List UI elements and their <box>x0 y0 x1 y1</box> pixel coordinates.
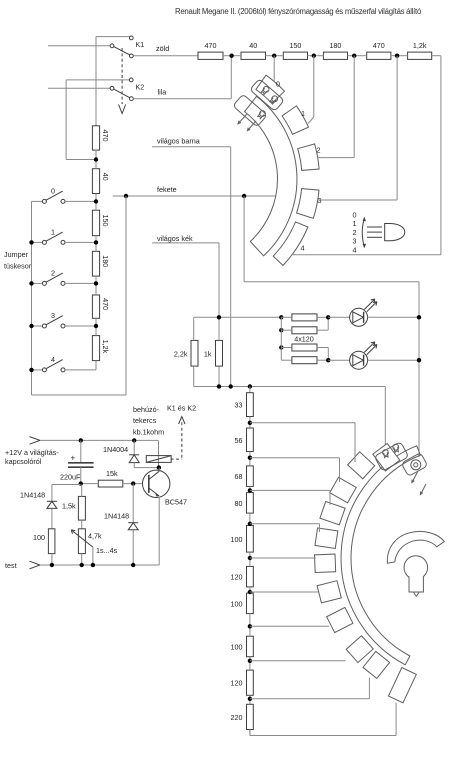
headlight symbol range arrow <box>362 218 364 248</box>
svg-text:Renault Megane II. (2006tól) f: Renault Megane II. (2006tól) fényszóróma… <box>175 7 422 16</box>
upper rotary segment 4 <box>273 222 308 266</box>
relay contact K2 <box>129 78 133 82</box>
svg-text:120: 120 <box>231 573 243 582</box>
wire K1 top terminal <box>96 36 129 38</box>
svg-text:470: 470 <box>101 129 110 141</box>
lower rotary switch ring track <box>341 446 420 665</box>
lower rotary segment 7 <box>327 607 353 632</box>
node LED2 cathode to common <box>417 358 421 362</box>
upper rotary switch ring track <box>245 96 297 256</box>
resistor 120 d <box>292 357 317 364</box>
wire fekete <box>113 195 276 197</box>
lower rotary segment 3 <box>320 501 345 524</box>
wire upper segment 2 <box>353 56 355 158</box>
svg-text:40: 40 <box>249 41 257 50</box>
wire to LED1 <box>328 316 349 318</box>
wire 1k branch <box>218 317 220 340</box>
svg-text:2,2k: 2,2k <box>174 350 188 359</box>
resistor 100 position ladder 5 <box>247 525 254 552</box>
wire collector <box>158 468 160 471</box>
lower rotary wiper pad A <box>374 442 408 471</box>
jumper switch 1 <box>32 241 43 243</box>
resistor 100 position ladder 8 <box>247 636 254 657</box>
wire vilagos kek <box>152 242 219 244</box>
wire 2.2k branch <box>193 317 195 340</box>
svg-text:120: 120 <box>231 679 243 688</box>
node barna join <box>229 384 233 388</box>
resistor 120 a <box>292 314 317 321</box>
svg-text:180: 180 <box>329 41 341 50</box>
svg-text:1: 1 <box>51 227 55 236</box>
wire ladder tap9 to segment <box>250 698 370 700</box>
resistor 470 top ladder <box>367 52 391 59</box>
node base-diode junction <box>131 481 135 485</box>
svg-text:1N4148: 1N4148 <box>104 512 129 521</box>
LED LED1 <box>350 308 368 326</box>
lower wiper keyholes <box>383 450 389 456</box>
lower rotary segment 8 <box>346 636 373 663</box>
svg-text:100: 100 <box>33 533 45 542</box>
node 1k bottom <box>217 384 221 388</box>
svg-text:+: + <box>71 454 76 463</box>
wire vilagos barna <box>152 146 231 148</box>
svg-text:1N4004: 1N4004 <box>103 445 128 454</box>
relay contact K1 <box>129 36 133 40</box>
wire 15k left <box>81 483 99 485</box>
svg-text:kb.1kohm: kb.1kohm <box>133 427 164 436</box>
relay coil K1K2 behuzo-tekercs <box>158 440 160 467</box>
lower wiper circle contact <box>411 460 421 470</box>
connector +12V input <box>30 437 41 445</box>
upper rotary wiper pad B <box>233 94 267 127</box>
wire +12V rail <box>40 439 158 441</box>
svg-text:4,7k: 4,7k <box>88 532 102 541</box>
svg-text:4x120: 4x120 <box>294 335 314 344</box>
wire to LED2 <box>328 359 349 361</box>
lower rotary segment 4 <box>315 528 338 548</box>
svg-text:3: 3 <box>51 311 55 320</box>
svg-text:150: 150 <box>289 41 301 50</box>
upper rotary segment 1 <box>282 106 308 134</box>
node junction 470/1.2k <box>395 54 399 58</box>
lower rotary segment 1 <box>348 452 375 479</box>
svg-text:K1 és K2: K1 és K2 <box>167 404 196 413</box>
resistor 220 position ladder 10 <box>247 704 254 729</box>
svg-text:fekete: fekete <box>157 185 177 194</box>
node 15k cap branch <box>79 481 83 485</box>
wire LED2 cathode <box>368 359 419 361</box>
transistor Q1 BC547 <box>143 470 170 497</box>
upper rotary wiper pad A <box>250 79 284 112</box>
wire fekete to jumper rail <box>125 196 127 395</box>
wire upper segment 3 <box>396 56 398 200</box>
svg-text:világos barna: világos barna <box>157 137 200 146</box>
node junction 40/150 <box>272 54 276 58</box>
svg-text:100: 100 <box>231 642 243 651</box>
resistor 100 position ladder 7 <box>247 593 254 614</box>
svg-text:2: 2 <box>51 268 55 277</box>
svg-text:100: 100 <box>231 599 243 608</box>
node junction 180/470 <box>352 54 356 58</box>
svg-text:1: 1 <box>301 109 305 118</box>
svg-text:zöld: zöld <box>156 44 169 53</box>
headlight symbol beam lines <box>367 226 382 228</box>
wire upper branch <box>52 484 81 486</box>
lower rotary segment 5 <box>315 554 336 572</box>
dashed link coil to K1 K2 <box>181 420 183 458</box>
wire divider chain <box>95 150 97 169</box>
wire K2 coil side free end <box>48 87 110 89</box>
svg-text:56: 56 <box>235 436 243 445</box>
wire ground rail <box>40 564 159 566</box>
svg-text:180: 180 <box>101 255 110 267</box>
upper rotary segment 0 <box>256 75 285 103</box>
wire jumper switch 1 to chain <box>65 241 96 243</box>
resistor 1k <box>216 340 223 366</box>
svg-text:1k: 1k <box>204 350 212 359</box>
resistor 470 divider chain <box>92 295 99 318</box>
wire LED block bottom <box>194 386 386 388</box>
svg-text:2: 2 <box>317 146 321 155</box>
svg-text:0: 0 <box>353 211 357 220</box>
svg-text:470: 470 <box>373 41 385 50</box>
resistor 1,2k top ladder <box>408 52 432 59</box>
wire ladder tap6 to segment <box>250 591 319 593</box>
wire lila K2 to ladder junction <box>133 98 231 100</box>
node LED2 feed <box>326 358 330 362</box>
svg-text:behúzó-: behúzó- <box>133 405 160 414</box>
node LED1 feed <box>326 315 330 319</box>
upper wiper contact keyholes <box>263 87 269 93</box>
svg-text:BC547: BC547 <box>165 498 187 507</box>
node diode tap <box>132 438 136 442</box>
node coil-diode-collector <box>157 465 161 469</box>
svg-text:33: 33 <box>235 401 243 410</box>
lower wiper arrows <box>412 472 418 483</box>
svg-text:kapcsolóról: kapcsolóról <box>5 457 42 466</box>
capacitor C1 220uF <box>80 440 82 462</box>
svg-text:15k: 15k <box>106 469 118 478</box>
svg-text:470: 470 <box>101 298 110 310</box>
svg-text:test: test <box>5 561 17 570</box>
wire ladder tap5 to segment <box>250 557 316 559</box>
wire ladder stub from LED block <box>249 387 251 393</box>
resistor 68 position ladder 3 <box>247 466 254 487</box>
node ground taps <box>50 563 54 567</box>
headlight symbol lamp <box>385 224 405 241</box>
node ladder taps <box>248 421 252 425</box>
svg-text:1s...4s: 1s...4s <box>96 546 118 555</box>
svg-text:tüskesor: tüskesor <box>4 262 32 271</box>
wire ladder tap2 to segment <box>250 457 340 459</box>
wire top ladder <box>223 55 232 57</box>
wire 15k to base <box>123 483 148 485</box>
lower rotary segment 10 <box>388 668 416 703</box>
svg-text:lila: lila <box>158 88 167 97</box>
resistor 2.2k <box>191 340 198 366</box>
node fekete branch <box>124 194 128 198</box>
svg-text:világos kék: világos kék <box>157 234 193 243</box>
svg-text:0: 0 <box>51 186 55 195</box>
svg-text:1,2k: 1,2k <box>101 340 110 354</box>
resistor 120 c <box>292 344 317 351</box>
wire emitter to rail <box>158 497 160 566</box>
svg-text:3: 3 <box>353 237 357 246</box>
wire ladder bottom to last segment <box>249 730 251 736</box>
node LED pair column <box>279 315 283 319</box>
svg-text:150: 150 <box>101 214 110 226</box>
upper wiper arrows <box>238 114 247 124</box>
svg-text:1,2k: 1,2k <box>413 41 427 50</box>
resistor 470 divider chain <box>92 126 99 150</box>
wire jumper switch 0 to chain <box>65 200 96 202</box>
wire ladder interconnects <box>249 417 251 429</box>
lower rotary segment 6 <box>317 581 341 603</box>
wire fekete to lower wiper <box>243 196 245 282</box>
wire LED1 cathode <box>368 316 419 318</box>
wire ladder tap4 to segment <box>250 523 320 525</box>
wire ladder tap3 to segment <box>250 489 330 491</box>
svg-text:K1: K1 <box>136 40 145 49</box>
svg-text:K2: K2 <box>136 83 145 92</box>
svg-text:0: 0 <box>276 80 280 89</box>
resistor 180 divider chain <box>92 251 99 276</box>
resistor 40 top ladder <box>241 52 266 59</box>
svg-text:+12V a világítás-: +12V a világítás- <box>5 448 59 457</box>
jumper switch 3 <box>32 325 43 327</box>
wire upper segment 1 <box>313 56 315 117</box>
wire K1 coil side free end <box>48 45 110 47</box>
mechanical link K1-K2 dashed with arrow <box>121 48 123 104</box>
resistor 120 b <box>292 327 317 334</box>
lower rotary segment 9 <box>363 651 390 678</box>
lower rotary wiper pad B <box>401 453 428 477</box>
node chain taps <box>94 157 98 161</box>
svg-text:80: 80 <box>235 499 243 508</box>
upper rotary segment 2 <box>298 144 319 171</box>
resistor 33 position ladder 1 <box>247 393 254 417</box>
LED LED2 <box>350 351 368 369</box>
node ladder feed <box>248 384 252 388</box>
resistor 120 position ladder 6 <box>247 566 254 587</box>
wire upper segment 0 <box>273 56 275 82</box>
svg-text:40: 40 <box>101 173 110 181</box>
svg-text:4: 4 <box>353 245 357 254</box>
resistor 1,2k divider chain <box>92 336 99 361</box>
resistor 80 position ladder 4 <box>247 493 254 513</box>
wire LED block top <box>194 316 282 318</box>
jumper switch 4 <box>32 369 43 371</box>
svg-text:tekercs: tekercs <box>133 416 157 425</box>
wire jumper left rail <box>31 201 33 395</box>
wire ladder tap1 to segment <box>250 422 355 424</box>
wire zold K1 to ladder <box>133 55 198 57</box>
wire jumper switch 3 to chain <box>65 325 96 327</box>
wire ladder tap7 to segment <box>250 625 329 627</box>
connector test ground <box>30 561 41 569</box>
lower rotary segment 0 <box>373 443 400 471</box>
svg-text:2: 2 <box>353 228 357 237</box>
wire ladder tap8 to segment <box>250 660 346 662</box>
lower rotary segment 2 <box>330 477 357 503</box>
node junction 470/40 <box>229 54 233 58</box>
svg-text:220uF: 220uF <box>60 473 81 482</box>
resistor 150 divider chain <box>92 210 99 236</box>
svg-text:68: 68 <box>235 472 243 481</box>
svg-text:Jumper: Jumper <box>4 250 29 259</box>
svg-text:4: 4 <box>301 244 305 253</box>
node LED1 cathode to common <box>417 315 421 319</box>
node 1k top <box>217 315 221 319</box>
jumper switch 2 <box>32 282 43 284</box>
resistor 180 top ladder <box>323 52 347 59</box>
node cap tap <box>79 438 83 442</box>
svg-text:1: 1 <box>353 219 357 228</box>
svg-text:1N4148: 1N4148 <box>20 491 45 500</box>
lamp light arc <box>387 531 444 563</box>
resistor 56 position ladder 2 <box>247 428 254 452</box>
lamp bulb symbol <box>404 556 428 580</box>
node junction 150/180 <box>312 54 316 58</box>
wire jumper switch 4 to chain <box>65 369 96 371</box>
resistor 470 top ladder <box>198 52 223 59</box>
jumper switch 0 <box>32 200 43 202</box>
svg-text:1,5k: 1,5k <box>62 502 76 511</box>
wire K2 top terminal <box>66 79 129 81</box>
resistor 150 top ladder <box>283 52 307 59</box>
wire jumper switch 2 to chain <box>65 282 96 284</box>
svg-text:4: 4 <box>51 355 55 364</box>
resistor 40 divider chain <box>92 169 99 194</box>
wire jumper bottom rail <box>32 394 127 396</box>
wire upper segment 4 <box>293 254 441 256</box>
upper rotary segment 3 <box>297 189 319 219</box>
svg-text:220: 220 <box>231 713 243 722</box>
svg-text:470: 470 <box>205 41 217 50</box>
resistor 120 position ladder 9 <box>247 670 254 695</box>
svg-text:100: 100 <box>231 535 243 544</box>
